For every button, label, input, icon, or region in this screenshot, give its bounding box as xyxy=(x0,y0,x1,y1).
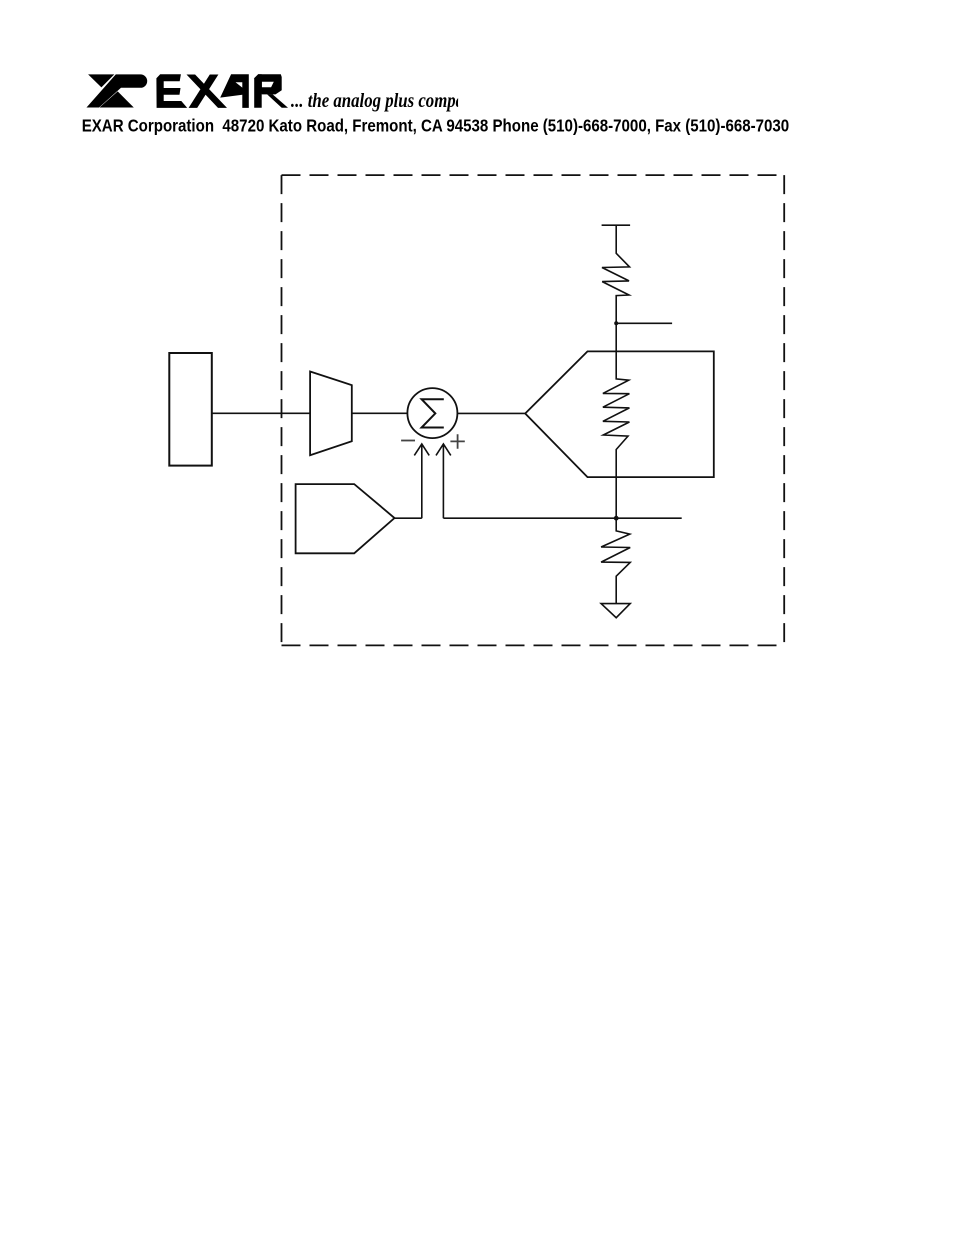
svg-text:... the analog plus company: ... the analog plus company xyxy=(291,91,481,112)
svg-text:EXAR Corporation 48720 Kato R: EXAR Corporation 48720 Kato Road, Fremon… xyxy=(82,115,790,135)
